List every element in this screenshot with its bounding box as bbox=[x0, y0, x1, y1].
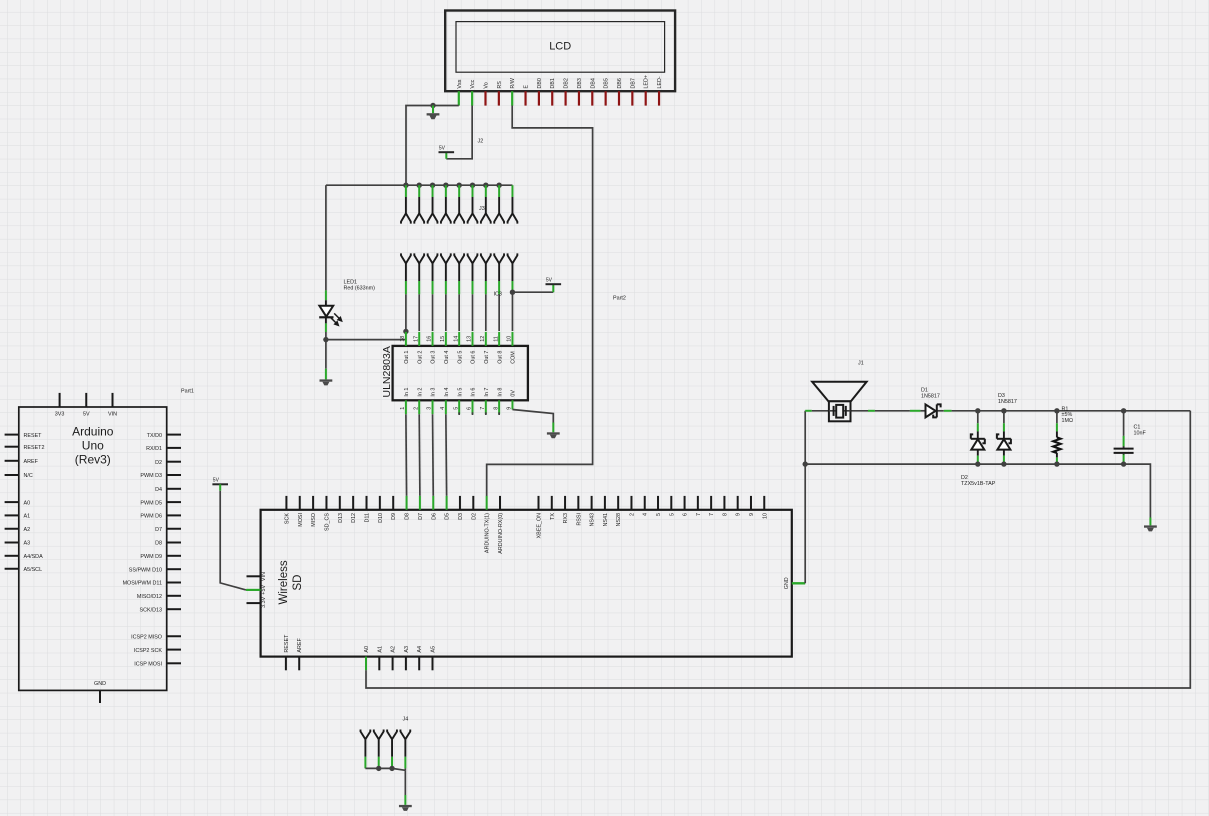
ULN2803A top pin numbers bbox=[400, 336, 513, 342]
svg-text:5V: 5V bbox=[439, 146, 446, 152]
wire COM to 5V supply bbox=[512, 291, 553, 293]
svg-text:TZX5v1B-TAP: TZX5v1B-TAP bbox=[961, 481, 996, 487]
svg-text:9: 9 bbox=[749, 513, 755, 516]
svg-text:D9: D9 bbox=[391, 513, 397, 520]
junctions on bottom rail bbox=[975, 461, 980, 466]
junctions on top rail bbox=[975, 408, 980, 413]
svg-text:RX/D1: RX/D1 bbox=[146, 446, 162, 452]
wire to diode D2 bbox=[977, 411, 979, 424]
svg-text:Out 6: Out 6 bbox=[471, 351, 477, 364]
svg-text:(Rev3): (Rev3) bbox=[75, 453, 111, 467]
svg-text:A1: A1 bbox=[24, 514, 31, 520]
svg-text:Uno: Uno bbox=[82, 439, 104, 453]
svg-text:D3: D3 bbox=[998, 393, 1005, 399]
wire LED1 cathode to ULN pin 18 bbox=[326, 339, 406, 341]
shield top pins right group bbox=[537, 496, 769, 539]
svg-text:Vss: Vss bbox=[457, 79, 463, 88]
svg-text:LED1: LED1 bbox=[344, 279, 358, 285]
svg-text:In 4: In 4 bbox=[444, 388, 450, 397]
J3 junction dots bbox=[403, 183, 502, 188]
ULN2803A bottom pin numbers bbox=[400, 407, 513, 410]
svg-text:7: 7 bbox=[696, 513, 702, 516]
svg-text:Vo: Vo bbox=[484, 82, 490, 88]
svg-text:3.3V: 3.3V bbox=[261, 596, 267, 607]
svg-text:SD: SD bbox=[292, 575, 304, 591]
header pin forks above ULN2803A bbox=[401, 253, 517, 263]
svg-text:A4: A4 bbox=[417, 646, 423, 653]
svg-text:A4/SDA: A4/SDA bbox=[24, 554, 44, 560]
svg-text:10: 10 bbox=[762, 513, 768, 519]
svg-text:RSSI: RSSI bbox=[576, 513, 582, 526]
svg-text:In 5: In 5 bbox=[457, 388, 463, 397]
svg-text:C1: C1 bbox=[1134, 425, 1141, 431]
svg-text:1MΩ: 1MΩ bbox=[1062, 418, 1074, 424]
junction GND rail start bbox=[803, 461, 808, 466]
wire shield A0 to right rail bbox=[366, 411, 1190, 688]
wire J3 bus to LED1 anode bbox=[325, 185, 327, 290]
svg-text:D8: D8 bbox=[405, 513, 411, 520]
svg-text:Part1: Part1 bbox=[181, 388, 194, 394]
svg-text:MOSI: MOSI bbox=[298, 513, 304, 527]
svg-text:PWM D3: PWM D3 bbox=[140, 473, 162, 479]
svg-text:Part2: Part2 bbox=[613, 296, 626, 302]
svg-text:TX/D0: TX/D0 bbox=[147, 433, 162, 439]
svg-text:D6: D6 bbox=[431, 513, 437, 520]
wire LED1 cathode to ground bbox=[325, 340, 327, 369]
svg-text:D10: D10 bbox=[378, 513, 384, 523]
5V supply near Arduino bbox=[212, 478, 228, 485]
svg-text:IC3: IC3 bbox=[494, 292, 502, 298]
svg-text:Arduino: Arduino bbox=[72, 425, 114, 439]
svg-text:D2: D2 bbox=[471, 513, 477, 520]
svg-text:AREF: AREF bbox=[24, 459, 39, 465]
svg-text:NS43: NS43 bbox=[590, 513, 596, 527]
svg-text:A5/SCL: A5/SCL bbox=[24, 567, 43, 573]
svg-text:LED-: LED- bbox=[657, 76, 663, 88]
svg-text:PWM D6: PWM D6 bbox=[140, 514, 162, 520]
svg-text:A3: A3 bbox=[24, 541, 31, 547]
svg-text:D11: D11 bbox=[365, 513, 371, 523]
svg-text:LED+: LED+ bbox=[644, 75, 650, 89]
svg-text:ICSP2 SCK: ICSP2 SCK bbox=[134, 648, 163, 654]
junction ULN pin 18 node bbox=[403, 329, 408, 334]
svg-text:A5: A5 bbox=[431, 646, 437, 653]
svg-text:1N5817: 1N5817 bbox=[921, 393, 940, 399]
J3 bus wire bbox=[326, 184, 513, 186]
LCD module bbox=[445, 11, 675, 92]
top rail wire bbox=[805, 410, 812, 412]
5V supply at ULN COM bbox=[546, 278, 562, 285]
svg-text:LCD: LCD bbox=[549, 41, 571, 53]
wire bottom rail to ground bbox=[1149, 518, 1151, 526]
capacitor C1 bbox=[1114, 448, 1134, 450]
svg-text:SD_CS: SD_CS bbox=[324, 513, 330, 531]
wire J4 to ground bbox=[404, 768, 406, 770]
wires ULN In1-In4 to shield D8-D5 bbox=[406, 414, 447, 496]
svg-text:Out 2: Out 2 bbox=[417, 351, 423, 364]
svg-text:ARDUINO-RX(0): ARDUINO-RX(0) bbox=[498, 513, 504, 554]
LCD pin labels bbox=[457, 75, 663, 89]
svg-text:NS41: NS41 bbox=[603, 513, 609, 527]
Arduino right pins bbox=[123, 433, 181, 668]
wire to resistor R1 bbox=[1056, 411, 1058, 424]
svg-text:In 7: In 7 bbox=[484, 388, 490, 397]
svg-text:Out 3: Out 3 bbox=[431, 351, 437, 364]
wire LCD Vcc to 5V supply J2 bbox=[446, 106, 472, 159]
svg-text:DB2: DB2 bbox=[564, 78, 570, 89]
ground below LED1 bbox=[320, 379, 333, 385]
svg-text:MISO: MISO bbox=[311, 513, 317, 527]
svg-text:VIN: VIN bbox=[261, 572, 267, 581]
svg-text:MOSI/PWM D11: MOSI/PWM D11 bbox=[123, 581, 162, 587]
svg-text:2: 2 bbox=[629, 513, 635, 516]
svg-text:R/W: R/W bbox=[510, 77, 516, 88]
connector J4 forks bbox=[361, 730, 411, 740]
svg-text:TX: TX bbox=[550, 513, 556, 520]
Arduino GND pin bbox=[99, 690, 101, 703]
5V supply J2 bbox=[439, 146, 455, 153]
svg-text:DB5: DB5 bbox=[604, 78, 610, 89]
svg-text:A2: A2 bbox=[24, 527, 31, 533]
svg-text:5V: 5V bbox=[83, 411, 90, 417]
svg-text:A1: A1 bbox=[377, 646, 383, 653]
svg-text:D12: D12 bbox=[351, 513, 357, 523]
svg-text:GND: GND bbox=[94, 681, 106, 687]
svg-text:SS/PWM D10: SS/PWM D10 bbox=[129, 567, 162, 573]
junction Vss ground tap bbox=[430, 103, 435, 108]
ULN2803A output pin names bbox=[404, 351, 517, 364]
svg-text:NS28: NS28 bbox=[616, 513, 622, 527]
junction LED1 cathode bbox=[323, 337, 328, 342]
svg-text:DB0: DB0 bbox=[537, 78, 543, 89]
svg-text:Vcc: Vcc bbox=[470, 79, 476, 88]
svg-text:Wireless: Wireless bbox=[278, 560, 290, 604]
svg-text:AREF: AREF bbox=[297, 638, 303, 653]
svg-text:ICSP2 MISO: ICSP2 MISO bbox=[131, 634, 162, 640]
wire ULN 0V to ground bbox=[512, 410, 553, 423]
IC ULN2803A bbox=[393, 346, 528, 400]
svg-text:0V: 0V bbox=[511, 390, 517, 397]
svg-text:RESET: RESET bbox=[24, 433, 43, 439]
svg-text:Out 5: Out 5 bbox=[457, 351, 463, 364]
svg-text:D13: D13 bbox=[338, 513, 344, 523]
diode D3 bbox=[997, 434, 1011, 449]
svg-text:SCK: SCK bbox=[284, 513, 290, 524]
svg-text:RS: RS bbox=[497, 81, 503, 89]
svg-text:+5V: +5V bbox=[261, 585, 267, 595]
svg-text:COM: COM bbox=[511, 351, 517, 364]
wire 5V to shield +5V pin bbox=[219, 484, 221, 490]
wire shield GND to speaker net bbox=[804, 411, 806, 584]
svg-text:RESET: RESET bbox=[284, 634, 290, 653]
svg-text:J4: J4 bbox=[403, 717, 409, 723]
svg-text:3V3: 3V3 bbox=[55, 411, 65, 417]
svg-text:VIN: VIN bbox=[108, 411, 117, 417]
svg-text:XBEE_ON: XBEE_ON bbox=[537, 513, 543, 539]
shield left pins VIN +5V 3.3V bbox=[247, 572, 267, 608]
J3 pin stems bbox=[406, 185, 513, 213]
svg-text:GND: GND bbox=[784, 577, 790, 589]
ground at bottom rail bbox=[1144, 525, 1157, 531]
ground at ULN 0V bbox=[547, 432, 560, 438]
shield top pins left group bbox=[284, 496, 504, 554]
J4 bus wire bbox=[365, 768, 405, 770]
Wireless SD shield body bbox=[261, 510, 792, 657]
svg-text:RESET2: RESET2 bbox=[24, 445, 45, 451]
ground below J4 bbox=[399, 805, 412, 811]
wire to capacitor C1 bbox=[1123, 411, 1125, 436]
svg-text:N/C: N/C bbox=[24, 473, 33, 479]
svg-text:In 6: In 6 bbox=[471, 388, 477, 397]
wire LCD R/W to shield ARDUINO-TX(1) bbox=[487, 106, 593, 497]
svg-text:Out 7: Out 7 bbox=[484, 351, 490, 364]
svg-text:ARDUINO-TX(1): ARDUINO-TX(1) bbox=[485, 513, 491, 553]
svg-text:4: 4 bbox=[643, 513, 649, 516]
svg-text:D7: D7 bbox=[155, 527, 162, 533]
svg-text:In 3: In 3 bbox=[431, 388, 437, 397]
svg-text:Out 4: Out 4 bbox=[444, 351, 450, 364]
diode D2 bbox=[971, 434, 985, 449]
svg-text:5: 5 bbox=[669, 513, 675, 516]
svg-text:D4: D4 bbox=[155, 487, 162, 493]
svg-text:10nF: 10nF bbox=[1134, 431, 1147, 437]
svg-text:DB1: DB1 bbox=[550, 78, 556, 89]
J4 pin stems bbox=[365, 739, 405, 768]
ground near LCD bbox=[432, 106, 434, 114]
J3 pin forks bbox=[401, 213, 517, 223]
svg-text:Out 1: Out 1 bbox=[404, 351, 410, 364]
bottom rail wire bbox=[805, 464, 1150, 517]
svg-text:J1: J1 bbox=[858, 361, 864, 367]
wire LCD Vss to ground and J3 bus bbox=[406, 106, 459, 186]
J4 junction dots bbox=[376, 766, 381, 771]
wire LED1 cathode down bbox=[325, 317, 327, 323]
svg-text:8: 8 bbox=[722, 513, 728, 516]
svg-text:RX3: RX3 bbox=[563, 513, 569, 524]
svg-text:ULN2803A: ULN2803A bbox=[381, 346, 393, 397]
svg-text:1N5817: 1N5817 bbox=[998, 399, 1017, 405]
svg-text:Out 8: Out 8 bbox=[497, 351, 503, 364]
junction ULN COM 5V tap bbox=[510, 290, 515, 295]
LCD pins bbox=[459, 91, 659, 105]
ULN2803A bottom pin stubs bbox=[406, 400, 513, 415]
svg-text:A0: A0 bbox=[364, 646, 370, 653]
svg-text:D7: D7 bbox=[418, 513, 424, 520]
svg-text:In 8: In 8 bbox=[497, 388, 503, 397]
svg-text:J3: J3 bbox=[479, 206, 485, 212]
shield GND pin bbox=[792, 582, 805, 584]
svg-text:PWM D5: PWM D5 bbox=[140, 500, 162, 506]
svg-text:SCK/D13: SCK/D13 bbox=[140, 607, 162, 613]
svg-text:DB4: DB4 bbox=[590, 78, 596, 89]
Arduino Uno Part1 body bbox=[19, 407, 167, 690]
wire to diode D3 bbox=[1003, 411, 1005, 424]
Arduino top pins 3V3 5V VIN bbox=[55, 393, 117, 417]
svg-text:6: 6 bbox=[683, 513, 689, 516]
ULN2803A top pin stubs bbox=[406, 332, 513, 346]
svg-text:Red (633nm): Red (633nm) bbox=[344, 286, 376, 292]
svg-text:DB6: DB6 bbox=[617, 78, 623, 89]
svg-text:5: 5 bbox=[656, 513, 662, 516]
svg-text:MISO/D12: MISO/D12 bbox=[137, 594, 162, 600]
header stems to ULN2803A pins bbox=[406, 263, 513, 331]
svg-text:A0: A0 bbox=[24, 500, 31, 506]
LED LED1 bbox=[319, 306, 333, 318]
diode D1 bbox=[926, 404, 941, 417]
svg-text:J2: J2 bbox=[478, 139, 484, 145]
svg-text:DB3: DB3 bbox=[577, 78, 583, 89]
Arduino left pins bbox=[5, 433, 45, 573]
svg-text:DB7: DB7 bbox=[630, 78, 636, 89]
svg-text:9: 9 bbox=[736, 513, 742, 516]
svg-text:A2: A2 bbox=[391, 646, 397, 653]
svg-text:5V: 5V bbox=[546, 278, 553, 284]
svg-text:7: 7 bbox=[709, 513, 715, 516]
svg-text:E: E bbox=[524, 85, 530, 89]
svg-text:5V: 5V bbox=[213, 478, 220, 484]
svg-text:D3: D3 bbox=[458, 513, 464, 520]
resistor R1 bbox=[1053, 437, 1060, 453]
svg-text:D2: D2 bbox=[155, 460, 162, 466]
ULN2803A input pin names bbox=[404, 388, 517, 397]
svg-text:In 1: In 1 bbox=[404, 388, 410, 397]
speaker J1 bbox=[812, 382, 866, 422]
svg-text:ICSP MOSI: ICSP MOSI bbox=[134, 662, 162, 668]
svg-text:D8: D8 bbox=[155, 541, 162, 547]
shield bottom pins bbox=[284, 634, 437, 670]
svg-text:In 2: In 2 bbox=[417, 388, 423, 397]
svg-text:D5: D5 bbox=[445, 513, 451, 520]
svg-text:PWM D9: PWM D9 bbox=[140, 554, 162, 560]
svg-text:A3: A3 bbox=[404, 646, 410, 653]
